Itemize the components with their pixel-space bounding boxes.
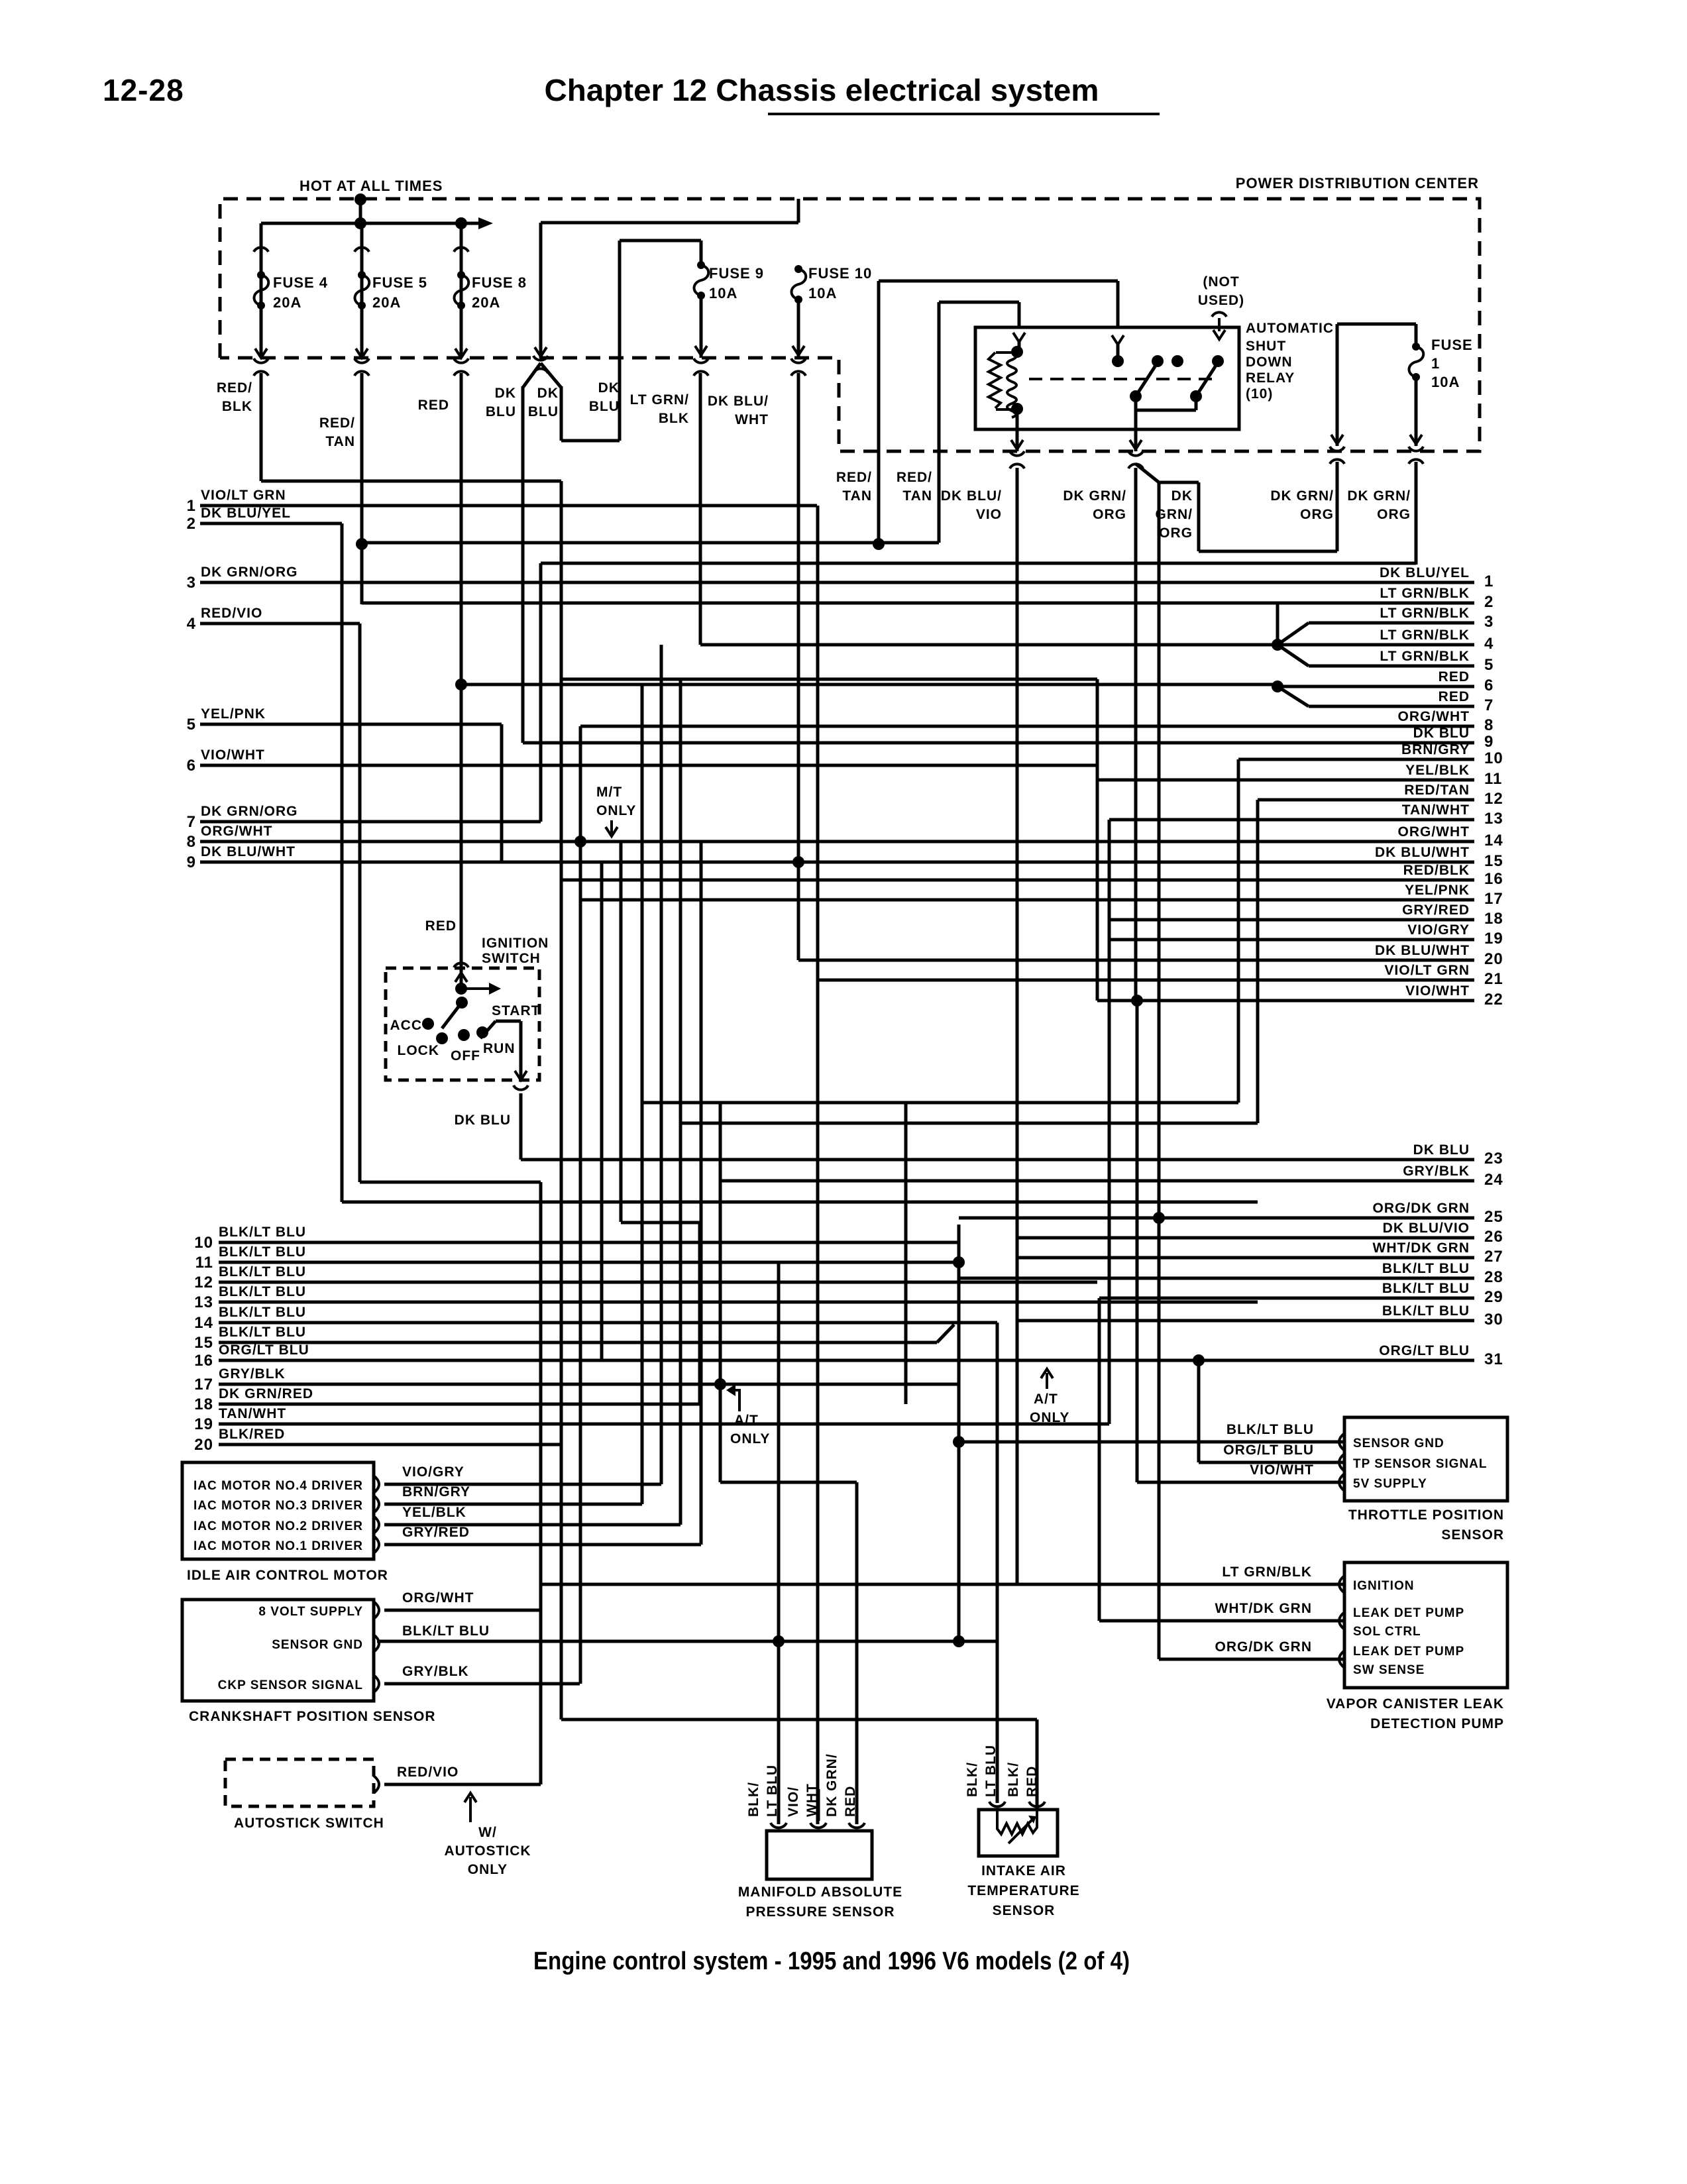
wire left pin 18 DK GRN/RED bbox=[219, 1403, 700, 1406]
leak connector SW bbox=[1339, 1651, 1344, 1668]
svg-text:Chapter 12 Chassis electrical: Chapter 12 Chassis electrical system bbox=[545, 73, 1099, 107]
fuse F4 element bbox=[257, 271, 265, 279]
svg-text:INTAKE AIR: INTAKE AIR bbox=[981, 1863, 1066, 1879]
svg-text:BLK/LT BLU: BLK/LT BLU bbox=[219, 1264, 306, 1280]
wire right pin 5 LT GRN/BLK bbox=[1309, 665, 1474, 668]
IAT internal resistor bbox=[997, 1810, 1037, 1834]
ignition blade bbox=[442, 1003, 461, 1028]
svg-text:LT GRN/BLK: LT GRN/BLK bbox=[1380, 586, 1470, 601]
IAC connector IAC MOTOR NO.1 DRIVER bbox=[374, 1536, 379, 1553]
svg-text:LEAK DET PUMP: LEAK DET PUMP bbox=[1353, 1645, 1464, 1659]
wire fuse5 RED/TAN drop bbox=[360, 373, 364, 604]
wire BLK/RED across bbox=[561, 1718, 1037, 1721]
wire h1025 cross bbox=[561, 678, 1097, 681]
wire pin29 drop bbox=[1098, 1298, 1101, 1621]
svg-text:ORG: ORG bbox=[1159, 525, 1193, 541]
svg-text:IAC MOTOR NO.1 DRIVER: IAC MOTOR NO.1 DRIVER bbox=[193, 1539, 363, 1553]
wire right pin 25 ORG/DK GRN bbox=[959, 1217, 1474, 1220]
IAC connector IAC MOTOR NO.2 DRIVER bbox=[374, 1516, 379, 1533]
svg-text:BLK: BLK bbox=[222, 399, 252, 414]
node CKP gnd junction right bbox=[953, 1635, 965, 1647]
svg-text:ORG/WHT: ORG/WHT bbox=[1398, 709, 1470, 724]
svg-text:LT GRN/BLK: LT GRN/BLK bbox=[1222, 1564, 1312, 1580]
node bus junction fuse 8 bbox=[455, 217, 467, 229]
wire right pin 24 GRY/BLK bbox=[720, 1179, 1474, 1183]
IAC motor box bbox=[182, 1462, 374, 1559]
svg-text:11: 11 bbox=[1484, 770, 1502, 788]
wire BLK/LT BLU net riser bbox=[957, 1225, 961, 1641]
svg-text:FUSE 8: FUSE 8 bbox=[472, 274, 527, 291]
svg-text:Engine control system - 1995 a: Engine control system - 1995 and 1996 V6… bbox=[533, 1947, 1130, 1975]
svg-text:FUSE 4: FUSE 4 bbox=[273, 274, 328, 291]
wire staircase v937 bbox=[620, 842, 623, 1222]
fuse F8 element bbox=[457, 271, 465, 279]
wire LT GRN/BLK riser bbox=[1276, 603, 1279, 645]
wire CKP GRY/BLK bbox=[384, 1682, 580, 1686]
wire TP signal feed bbox=[1199, 1461, 1344, 1464]
svg-text:DK: DK bbox=[495, 386, 516, 401]
svg-text:10A: 10A bbox=[1431, 374, 1460, 390]
svg-text:BLK/LT BLU: BLK/LT BLU bbox=[219, 1325, 306, 1340]
wire IAC BRN/GRY bbox=[384, 1503, 642, 1506]
svg-text:BLK/: BLK/ bbox=[1006, 1762, 1021, 1797]
wire fuse 9 top link bbox=[620, 239, 701, 243]
svg-text:YEL/PNK: YEL/PNK bbox=[1405, 883, 1470, 898]
wire DK BLU loop bottom bbox=[561, 439, 620, 443]
fuse F1 element bbox=[1412, 343, 1420, 351]
svg-text:LT GRN/BLK: LT GRN/BLK bbox=[1380, 628, 1470, 643]
svg-text:RED/VIO: RED/VIO bbox=[397, 1765, 459, 1780]
svg-text:WHT/DK GRN: WHT/DK GRN bbox=[1373, 1240, 1470, 1256]
CKP connector SENSOR GND bbox=[374, 1635, 379, 1652]
node pin25 junction bbox=[1153, 1212, 1165, 1224]
svg-text:2: 2 bbox=[1484, 593, 1494, 611]
IAT wire stubs bbox=[1036, 1720, 1039, 1810]
wire left pin 20 BLK/RED bbox=[219, 1443, 561, 1447]
svg-text:GRY/RED: GRY/RED bbox=[402, 1525, 470, 1540]
ignition feed arrow right bbox=[461, 987, 490, 990]
IAC connector IAC MOTOR NO.4 DRIVER bbox=[374, 1476, 379, 1493]
svg-text:FUSE 5: FUSE 5 bbox=[372, 274, 427, 291]
node RED branch bbox=[455, 679, 467, 690]
wire right pin 17 YEL/PNK bbox=[580, 899, 1474, 902]
svg-text:BLU: BLU bbox=[528, 404, 559, 419]
wire staircase v1367 bbox=[904, 1104, 908, 1404]
svg-text:5V SUPPLY: 5V SUPPLY bbox=[1353, 1477, 1427, 1491]
svg-text:BLK/LT BLU: BLK/LT BLU bbox=[1382, 1281, 1470, 1296]
svg-text:14: 14 bbox=[194, 1314, 213, 1332]
CKP connector CKP SENSOR SIGNAL bbox=[374, 1675, 379, 1692]
wire right pin 30 BLK/LT BLU bbox=[1017, 1319, 1474, 1323]
wire IAT BLK/LT BLU drop bbox=[996, 1323, 999, 1803]
svg-text:16: 16 bbox=[194, 1352, 213, 1370]
svg-text:DK BLU/: DK BLU/ bbox=[941, 488, 1002, 504]
svg-text:4: 4 bbox=[187, 615, 196, 633]
svg-text:SW SENSE: SW SENSE bbox=[1353, 1663, 1425, 1677]
relay not-used pin bbox=[1212, 312, 1226, 317]
wire right pin 19 VIO/GRY bbox=[1109, 938, 1474, 942]
svg-text:BLK/LT BLU: BLK/LT BLU bbox=[219, 1244, 306, 1260]
wire fuse9 LT GRN/BLK drop bbox=[699, 373, 702, 645]
wire DK GRN/ORG relay diagonal bbox=[1136, 464, 1159, 482]
svg-text:ORG/LT BLU: ORG/LT BLU bbox=[1379, 1343, 1470, 1358]
svg-text:LOCK: LOCK bbox=[398, 1043, 440, 1058]
wire left pin 17 GRY/BLK bbox=[219, 1383, 959, 1386]
svg-text:GRY/RED: GRY/RED bbox=[1402, 902, 1470, 918]
svg-text:26: 26 bbox=[1484, 1228, 1503, 1246]
svg-text:A/T: A/T bbox=[1034, 1392, 1058, 1407]
wire fuse bus 1 bbox=[261, 222, 486, 225]
svg-text:RED/BLK: RED/BLK bbox=[1403, 863, 1470, 878]
svg-text:ONLY: ONLY bbox=[1030, 1410, 1069, 1425]
IAT sensor box bbox=[979, 1810, 1058, 1856]
svg-text:IGNITION: IGNITION bbox=[482, 936, 549, 951]
wire relay pin drop 2 bbox=[1018, 302, 1021, 327]
svg-text:3: 3 bbox=[1484, 613, 1494, 631]
svg-text:SHUT: SHUT bbox=[1246, 339, 1286, 354]
relay coil bbox=[989, 353, 1001, 408]
svg-text:SENSOR GND: SENSOR GND bbox=[272, 1638, 363, 1652]
TPS connector SENSOR GND bbox=[1339, 1433, 1344, 1450]
svg-text:DK GRN/: DK GRN/ bbox=[1063, 488, 1126, 504]
svg-text:RED/: RED/ bbox=[319, 415, 355, 431]
wire RED/BLK drop to pin16 bbox=[560, 481, 563, 1720]
svg-text:AUTOSTICK: AUTOSTICK bbox=[444, 1843, 531, 1859]
svg-text:8 VOLT SUPPLY: 8 VOLT SUPPLY bbox=[258, 1605, 363, 1619]
node relay contact c bbox=[1152, 355, 1164, 367]
svg-text:DK BLU/WHT: DK BLU/WHT bbox=[1375, 943, 1470, 958]
svg-text:5: 5 bbox=[187, 716, 196, 734]
wire MAP DK GRN/RED riser bbox=[855, 1482, 859, 1824]
wire DK BLU/YEL across low bbox=[342, 1201, 1258, 1204]
node CKP gnd junction left bbox=[773, 1635, 785, 1647]
ignition top connector bbox=[454, 963, 468, 967]
node ignition feed bbox=[455, 983, 467, 995]
svg-text:LT BLU: LT BLU bbox=[765, 1765, 780, 1817]
node RED merge bbox=[1272, 681, 1283, 692]
wire DK BLU Y-split bbox=[523, 363, 561, 388]
node LT GRN/BLK merge bbox=[1272, 639, 1283, 651]
wire RED branch to right pins bbox=[461, 683, 1278, 686]
svg-text:5: 5 bbox=[1484, 656, 1494, 674]
node ACC contact bbox=[422, 1018, 434, 1030]
wire left pin 15 BLK/LT BLU bbox=[219, 1341, 937, 1344]
svg-text:20A: 20A bbox=[472, 294, 500, 311]
fuse F4 connector below PDC bbox=[254, 358, 268, 363]
svg-text:RED: RED bbox=[1024, 1766, 1040, 1797]
svg-text:13: 13 bbox=[1484, 810, 1503, 828]
svg-text:RELAY: RELAY bbox=[1246, 370, 1295, 386]
autostick dashed box bbox=[225, 1759, 374, 1806]
node hot feed on dashed edge bbox=[354, 193, 366, 205]
svg-text:LT BLU: LT BLU bbox=[983, 1745, 999, 1797]
svg-text:YEL/BLK: YEL/BLK bbox=[1405, 763, 1470, 778]
node M/T junction bbox=[574, 836, 586, 847]
wire relay pin drop 1 bbox=[1116, 281, 1120, 327]
leak connector SOL bbox=[1339, 1612, 1344, 1629]
wire right pin 16 RED/BLK bbox=[561, 879, 1474, 882]
svg-text:VIO/LT GRN: VIO/LT GRN bbox=[201, 488, 286, 503]
svg-text:LEAK DET PUMP: LEAK DET PUMP bbox=[1353, 1606, 1464, 1620]
wire hot feed drop bbox=[359, 199, 362, 223]
svg-text:BLK/LT BLU: BLK/LT BLU bbox=[1226, 1422, 1314, 1437]
svg-text:24: 24 bbox=[1484, 1171, 1503, 1189]
svg-text:(NOT: (NOT bbox=[1203, 274, 1239, 290]
svg-text:RED: RED bbox=[425, 918, 457, 934]
svg-text:9: 9 bbox=[187, 853, 196, 871]
wire DK BLU/YEL drop bbox=[341, 523, 344, 1202]
IAT pin connectors bbox=[989, 1802, 1005, 1806]
leak connector IGNITION bbox=[1339, 1576, 1344, 1593]
wire left pin 12 BLK/LT BLU bbox=[219, 1281, 1097, 1284]
wire pin15 diagonal bbox=[937, 1325, 954, 1342]
wire staircase h1664 bbox=[642, 1101, 1238, 1105]
svg-text:LT GRN/BLK: LT GRN/BLK bbox=[1380, 649, 1470, 664]
svg-text:GRN/: GRN/ bbox=[1156, 507, 1193, 522]
svg-text:ORG/DK GRN: ORG/DK GRN bbox=[1373, 1201, 1470, 1216]
svg-text:ORG/LT BLU: ORG/LT BLU bbox=[219, 1342, 309, 1358]
wire fuse8 RED drop to ignition bbox=[460, 373, 463, 987]
node LOCK contact bbox=[436, 1032, 448, 1044]
MAP sensor box bbox=[767, 1831, 872, 1879]
svg-text:17: 17 bbox=[194, 1376, 213, 1393]
svg-text:1: 1 bbox=[187, 497, 196, 515]
svg-text:RED/: RED/ bbox=[217, 380, 252, 396]
wire staircase v1056b bbox=[698, 1223, 702, 1404]
node relay contact e bbox=[1212, 355, 1224, 367]
svg-text:11: 11 bbox=[195, 1254, 213, 1272]
wire ORG/WHT drop v876 bbox=[579, 726, 582, 1684]
CKP sensor box bbox=[182, 1600, 374, 1701]
wire right pin 11 YEL/BLK bbox=[1097, 779, 1474, 782]
relay switch blade 1 bbox=[1136, 362, 1158, 396]
svg-text:WHT/DK GRN: WHT/DK GRN bbox=[1215, 1601, 1312, 1616]
svg-text:YEL/PNK: YEL/PNK bbox=[201, 706, 266, 722]
wire DK GRN/ORG pin7 riser bbox=[539, 563, 543, 822]
wire right pin 28 BLK/LT BLU bbox=[959, 1277, 1474, 1280]
svg-text:BLU: BLU bbox=[486, 404, 516, 419]
wire DK GRN/ORG step riser bbox=[1336, 462, 1339, 551]
svg-text:DK: DK bbox=[1171, 488, 1193, 504]
wire right pin 13 TAN/WHT bbox=[1109, 818, 1474, 822]
svg-text:17: 17 bbox=[1484, 890, 1503, 908]
svg-text:AUTOMATIC: AUTOMATIC bbox=[1246, 321, 1334, 336]
title underline bbox=[768, 113, 1160, 115]
svg-text:BLK/: BLK/ bbox=[746, 1782, 761, 1817]
IAC connector IAC MOTOR NO.3 DRIVER bbox=[374, 1496, 379, 1513]
wire left pin 13 BLK/LT BLU bbox=[219, 1301, 1258, 1304]
svg-text:DK GRN/: DK GRN/ bbox=[824, 1753, 840, 1817]
svg-text:10: 10 bbox=[194, 1234, 213, 1252]
fuse F8 connector below PDC bbox=[454, 358, 468, 363]
fuse F9 element bbox=[697, 261, 705, 269]
svg-text:VAPOR CANISTER LEAK: VAPOR CANISTER LEAK bbox=[1327, 1696, 1504, 1712]
svg-text:IGNITION: IGNITION bbox=[1353, 1579, 1414, 1593]
wire fuse1 left drop bbox=[1336, 324, 1339, 446]
svg-text:ONLY: ONLY bbox=[596, 803, 636, 818]
svg-text:TP SENSOR SIGNAL: TP SENSOR SIGNAL bbox=[1353, 1457, 1488, 1471]
wire relay coil ground drop bbox=[1016, 409, 1019, 451]
MAP pin connectors bbox=[771, 1823, 787, 1828]
svg-text:18: 18 bbox=[194, 1395, 213, 1413]
svg-text:TAN: TAN bbox=[842, 488, 872, 504]
svg-text:ORG/WHT: ORG/WHT bbox=[201, 824, 272, 839]
wire right pin 26 DK BLU/VIO bbox=[1017, 1236, 1474, 1240]
wire staircase v969 bbox=[641, 684, 644, 1504]
svg-text:28: 28 bbox=[1484, 1268, 1503, 1286]
svg-text:DK GRN/RED: DK GRN/RED bbox=[219, 1386, 313, 1401]
wire DK BLU/WHT drop fuse10 bbox=[797, 373, 800, 960]
svg-text:VIO/GRY: VIO/GRY bbox=[402, 1464, 464, 1480]
svg-text:DK BLU/YEL: DK BLU/YEL bbox=[201, 506, 291, 521]
svg-text:RUN: RUN bbox=[483, 1041, 516, 1056]
wire RED/TAN step to LT GRN/BLK row bbox=[362, 602, 1278, 605]
wire RED/BLK across bbox=[261, 480, 561, 483]
wire right pin 21 VIO/LT GRN bbox=[817, 979, 1474, 982]
svg-text:DK GRN/ORG: DK GRN/ORG bbox=[201, 804, 298, 819]
wire fuse4 RED/BLK drop bbox=[260, 373, 263, 481]
wire VIO/WHT riser bbox=[1096, 679, 1099, 1001]
svg-text:VIO/LT GRN: VIO/LT GRN bbox=[1384, 963, 1470, 978]
node ignition rotor bbox=[456, 997, 468, 1009]
svg-text:BLK: BLK bbox=[659, 411, 689, 426]
svg-text:VIO/WHT: VIO/WHT bbox=[201, 747, 265, 763]
svg-text:15: 15 bbox=[1484, 852, 1503, 870]
wire VIO/LT GRN long drop bbox=[816, 506, 820, 1824]
svg-text:BLK/LT BLU: BLK/LT BLU bbox=[219, 1305, 306, 1320]
svg-text:SENSOR: SENSOR bbox=[1441, 1527, 1504, 1543]
svg-text:20: 20 bbox=[194, 1436, 213, 1454]
svg-text:9: 9 bbox=[1484, 733, 1494, 751]
svg-text:BLK/LT BLU: BLK/LT BLU bbox=[219, 1284, 306, 1299]
svg-text:TAN/WHT: TAN/WHT bbox=[1402, 802, 1470, 818]
svg-text:20A: 20A bbox=[372, 294, 401, 311]
svg-text:6: 6 bbox=[187, 757, 196, 775]
svg-text:27: 27 bbox=[1484, 1248, 1503, 1266]
wire right pin 20 DK BLU/WHT bbox=[798, 959, 1474, 962]
svg-text:DK: DK bbox=[537, 386, 559, 401]
svg-text:LT GRN/: LT GRN/ bbox=[630, 392, 689, 408]
svg-text:10A: 10A bbox=[808, 285, 837, 301]
fuse F1 wire bbox=[1415, 324, 1418, 347]
wire left pin 6 VIO/WHT bbox=[200, 764, 1097, 767]
node OFF contact bbox=[458, 1029, 470, 1041]
svg-text:21: 21 bbox=[1484, 970, 1503, 988]
wire leak ignition LT GRN/BLK bbox=[541, 1583, 1344, 1586]
wire A/T vert drop bbox=[719, 1103, 722, 1482]
svg-text:8: 8 bbox=[187, 833, 196, 851]
wire left pin 4 RED/VIO bbox=[200, 622, 360, 626]
node relay contact d bbox=[1171, 355, 1183, 367]
svg-text:FUSE 9: FUSE 9 bbox=[709, 265, 764, 282]
svg-text:GRY/BLK: GRY/BLK bbox=[402, 1664, 469, 1679]
wire staircase v1058b bbox=[700, 842, 703, 1545]
wire MAP BLK/LT BLU riser bbox=[777, 1302, 781, 1824]
svg-text:2: 2 bbox=[187, 515, 196, 533]
svg-text:7: 7 bbox=[187, 813, 196, 831]
wire staircase v1027 bbox=[679, 679, 682, 1525]
wire TPS 5V drop bbox=[1136, 1001, 1139, 1482]
svg-text:RED: RED bbox=[843, 1786, 858, 1817]
wire RED/TAN riser 1 bbox=[877, 281, 881, 543]
wire TPS 5V feed bbox=[1137, 1481, 1344, 1484]
node TPS gnd junction bbox=[953, 1436, 965, 1448]
svg-text:SWITCH: SWITCH bbox=[482, 951, 541, 966]
svg-text:ORG: ORG bbox=[1093, 507, 1126, 522]
wire right pin 3 LT GRN/BLK bbox=[1309, 622, 1474, 625]
node RED/TAN branch left bbox=[356, 538, 368, 550]
svg-text:14: 14 bbox=[1484, 832, 1503, 849]
svg-text:29: 29 bbox=[1484, 1288, 1503, 1306]
svg-text:BRN/GRY: BRN/GRY bbox=[402, 1484, 470, 1500]
wire right pin 10 BRN/GRY bbox=[1238, 758, 1474, 761]
wire relay top link 2 bbox=[939, 301, 1019, 304]
svg-text:CRANKSHAFT POSITION SENSOR: CRANKSHAFT POSITION SENSOR bbox=[189, 1709, 436, 1724]
wire DK GRN/ORG step drop bbox=[1197, 482, 1201, 551]
wire ORG/LT BLU drop bbox=[1197, 1360, 1201, 1462]
svg-text:VIO/WHT: VIO/WHT bbox=[1405, 983, 1470, 999]
wire IAC GRY/RED bbox=[384, 1543, 701, 1547]
svg-text:VIO: VIO bbox=[976, 507, 1002, 522]
svg-text:W/: W/ bbox=[478, 1825, 497, 1840]
wire relay blade link bbox=[1195, 396, 1198, 410]
svg-text:BLK/LT BLU: BLK/LT BLU bbox=[1382, 1261, 1470, 1276]
wire TPS gnd feed bbox=[959, 1441, 1344, 1444]
svg-text:7: 7 bbox=[1484, 696, 1494, 714]
wire LT GRN/BLK diag to pin3 bbox=[1278, 623, 1309, 645]
wire left pin 9 DK BLU/WHT bbox=[200, 861, 1474, 864]
svg-text:A/T: A/T bbox=[734, 1413, 759, 1428]
svg-text:12: 12 bbox=[194, 1274, 213, 1291]
node relay contact b bbox=[1112, 355, 1124, 367]
wire relay top link 1 bbox=[879, 280, 1118, 283]
svg-text:DK BLU: DK BLU bbox=[1413, 1142, 1470, 1158]
wire right pin 18 GRY/RED bbox=[1109, 918, 1474, 922]
wire START link bbox=[496, 1020, 521, 1023]
node VIO/WHT junction bbox=[1131, 995, 1143, 1007]
svg-text:31: 31 bbox=[1484, 1350, 1503, 1368]
node ORG/LT BLU junction bbox=[1193, 1354, 1205, 1366]
svg-text:VIO/: VIO/ bbox=[786, 1786, 801, 1817]
svg-text:20: 20 bbox=[1484, 950, 1503, 968]
svg-text:DETECTION PUMP: DETECTION PUMP bbox=[1370, 1716, 1504, 1731]
wire RED/VIO across low bbox=[360, 1181, 541, 1184]
wire staircase h1695 bbox=[680, 1122, 1258, 1125]
TPS connector 5V SUPPLY bbox=[1339, 1474, 1344, 1491]
svg-text:GRY/BLK: GRY/BLK bbox=[219, 1366, 286, 1382]
wire TAN/WHT riser bbox=[1108, 820, 1111, 1424]
svg-text:BLK/LT BLU: BLK/LT BLU bbox=[402, 1623, 490, 1639]
wire right pin 8 ORG/WHT bbox=[580, 725, 1474, 728]
wire DK BLU feed drop bbox=[539, 223, 543, 358]
svg-text:POWER DISTRIBUTION CENTER: POWER DISTRIBUTION CENTER bbox=[1236, 175, 1479, 191]
svg-text:ORG/LT BLU: ORG/LT BLU bbox=[1223, 1443, 1314, 1458]
wire DK GRN/ORG step top bbox=[1159, 481, 1199, 484]
svg-text:DK BLU/YEL: DK BLU/YEL bbox=[1380, 565, 1470, 580]
wire fuse1 top link bbox=[1337, 323, 1416, 326]
svg-text:22: 22 bbox=[1484, 991, 1503, 1009]
svg-text:30: 30 bbox=[1484, 1311, 1503, 1329]
wire right pin 4 LT GRN/BLK bbox=[700, 643, 1474, 647]
svg-text:13: 13 bbox=[194, 1293, 213, 1311]
wire pin10 riser bbox=[1237, 759, 1240, 1103]
svg-text:BLK/LT BLU: BLK/LT BLU bbox=[1382, 1303, 1470, 1319]
svg-text:DK GRN/ORG: DK GRN/ORG bbox=[201, 565, 298, 580]
wire MAP riser upper bbox=[777, 1262, 781, 1302]
svg-text:DK BLU/WHT: DK BLU/WHT bbox=[1375, 845, 1470, 860]
svg-text:TAN/WHT: TAN/WHT bbox=[219, 1406, 286, 1421]
wire DK GRN/ORG step bottom bbox=[1199, 550, 1337, 553]
